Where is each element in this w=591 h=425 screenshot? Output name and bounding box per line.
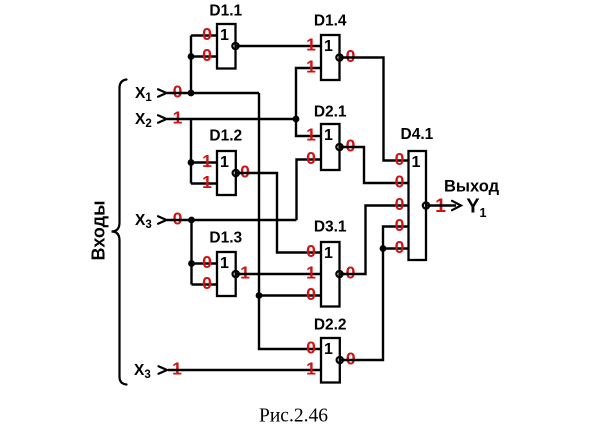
wire D4.1 input 5 stub — [383, 247, 409, 249]
svg-text:Входы: Входы — [89, 201, 109, 261]
wire D1.2 input bus — [190, 119, 192, 184]
junction X1/D1.1 — [188, 90, 195, 97]
svg-text:1: 1 — [220, 154, 229, 171]
gate D3.1 — [321, 242, 340, 307]
output arrow — [452, 201, 461, 210]
gate D1.3 — [217, 252, 236, 296]
wire X3 branch up to D2.1 input 2 — [297, 160, 322, 221]
svg-text:1: 1 — [202, 172, 212, 192]
input X3b arrow — [159, 366, 168, 373]
wire D1.4 output to D4.1 input 1 — [340, 58, 409, 161]
wire X1 vertical down — [259, 93, 321, 349]
wire X1 horizontal — [167, 92, 259, 94]
junction D2.2 output branch — [380, 245, 387, 252]
wire X2 branch up to D1.4 input 2 — [296, 68, 321, 119]
junction D1.1 input 2 — [188, 53, 195, 60]
svg-text:0: 0 — [202, 24, 212, 44]
svg-text:1: 1 — [324, 127, 333, 144]
svg-text:D1.2: D1.2 — [209, 128, 242, 145]
svg-text:1: 1 — [240, 263, 250, 283]
svg-text:1: 1 — [173, 108, 183, 128]
svg-text:1: 1 — [306, 359, 316, 379]
wire X2 branch down to D2.1 input 1 — [296, 119, 321, 136]
wire D1.3 input bus — [190, 220, 192, 285]
svg-text:D1.3: D1.3 — [209, 229, 242, 246]
svg-text:1: 1 — [220, 255, 229, 272]
svg-text:0: 0 — [173, 82, 183, 102]
svg-text:0: 0 — [306, 338, 316, 358]
svg-text:1: 1 — [324, 38, 333, 55]
wire D1.1 input stub 2 — [191, 55, 217, 57]
input X3 arrow — [158, 216, 167, 223]
svg-text:1: 1 — [306, 263, 316, 283]
svg-text:0: 0 — [346, 46, 356, 66]
wire X3b to D2.2 input 2 — [168, 369, 321, 371]
junction X3/D1.3 — [188, 217, 195, 224]
svg-text:0: 0 — [306, 148, 316, 168]
svg-text:0: 0 — [202, 273, 212, 293]
svg-text:1: 1 — [220, 27, 229, 44]
junction D1.2 input 1 — [188, 159, 195, 166]
svg-text:D1.4: D1.4 — [314, 12, 347, 29]
svg-text:0: 0 — [306, 284, 316, 304]
wire D1.1 input bus — [190, 36, 192, 94]
svg-text:0: 0 — [395, 215, 405, 235]
svg-text:0: 0 — [395, 237, 405, 257]
svg-text:0: 0 — [240, 162, 250, 182]
svg-text:1: 1 — [324, 341, 333, 358]
svg-text:Рис.2.46: Рис.2.46 — [259, 406, 328, 425]
svg-text:D4.1: D4.1 — [401, 126, 434, 143]
brace for inputs — [112, 80, 127, 385]
wire D1.3 output to D3.1 input 2 — [236, 273, 321, 275]
wire D1.1 input stub 1 — [191, 34, 217, 36]
svg-text:D2.2: D2.2 — [314, 316, 347, 333]
svg-text:1: 1 — [306, 57, 316, 77]
wire D1.2 input stub 1 — [191, 161, 217, 163]
wire X2 horizontal — [167, 118, 296, 120]
svg-text:0: 0 — [395, 194, 405, 214]
svg-text:0: 0 — [306, 241, 316, 261]
wire D1.2 input stub 2 — [191, 182, 217, 184]
wire output Y1 — [426, 204, 456, 206]
svg-text:0: 0 — [395, 149, 405, 169]
junction X1/D3.1 — [256, 292, 263, 299]
svg-text:0: 0 — [346, 263, 356, 283]
gate D1.2 — [217, 151, 236, 195]
svg-text:1: 1 — [306, 125, 316, 145]
input X1 arrow — [158, 89, 167, 96]
wire D3.1 output to D4.1 input 3 — [340, 206, 409, 275]
svg-text:0: 0 — [173, 209, 183, 229]
svg-text:D3.1: D3.1 — [314, 219, 347, 236]
svg-text:D2.1: D2.1 — [314, 104, 347, 121]
svg-text:0: 0 — [346, 136, 356, 156]
wire D1.2 output to D3.1 input 1 — [236, 173, 321, 253]
svg-text:0: 0 — [346, 349, 356, 369]
svg-text:1: 1 — [172, 359, 182, 379]
gate D2.1 — [321, 124, 340, 170]
svg-text:1: 1 — [324, 245, 333, 262]
gate D1.1 — [217, 24, 236, 69]
wire D1.3 input stub 2 — [192, 283, 218, 285]
gate D4.1 — [409, 151, 427, 260]
svg-text:Выход: Выход — [444, 178, 500, 196]
svg-text:0: 0 — [395, 172, 405, 192]
svg-text:D1.1: D1.1 — [209, 2, 242, 19]
wire D2.2 output to D4.1 inputs 4 and 5 — [340, 227, 409, 361]
svg-text:1: 1 — [306, 35, 316, 55]
junction X2 branch — [293, 116, 300, 123]
wire X3 horizontal — [167, 219, 297, 221]
svg-text:0: 0 — [202, 252, 212, 272]
svg-text:0: 0 — [202, 45, 212, 65]
input X2 arrow — [158, 115, 167, 122]
svg-text:1: 1 — [412, 154, 421, 171]
gate D1.4 — [321, 35, 340, 80]
wire D1.1 output to D1.4 input 1 — [236, 45, 322, 47]
wire X1 branch to D3.1 input 3 — [259, 294, 321, 296]
svg-text:1: 1 — [202, 151, 212, 171]
wire D2.1 output to D4.1 input 2 — [340, 147, 409, 183]
junction D1.3 input 1 — [188, 260, 195, 267]
wire D1.3 input stub 1 — [192, 262, 218, 264]
gate D2.2 — [321, 338, 340, 383]
